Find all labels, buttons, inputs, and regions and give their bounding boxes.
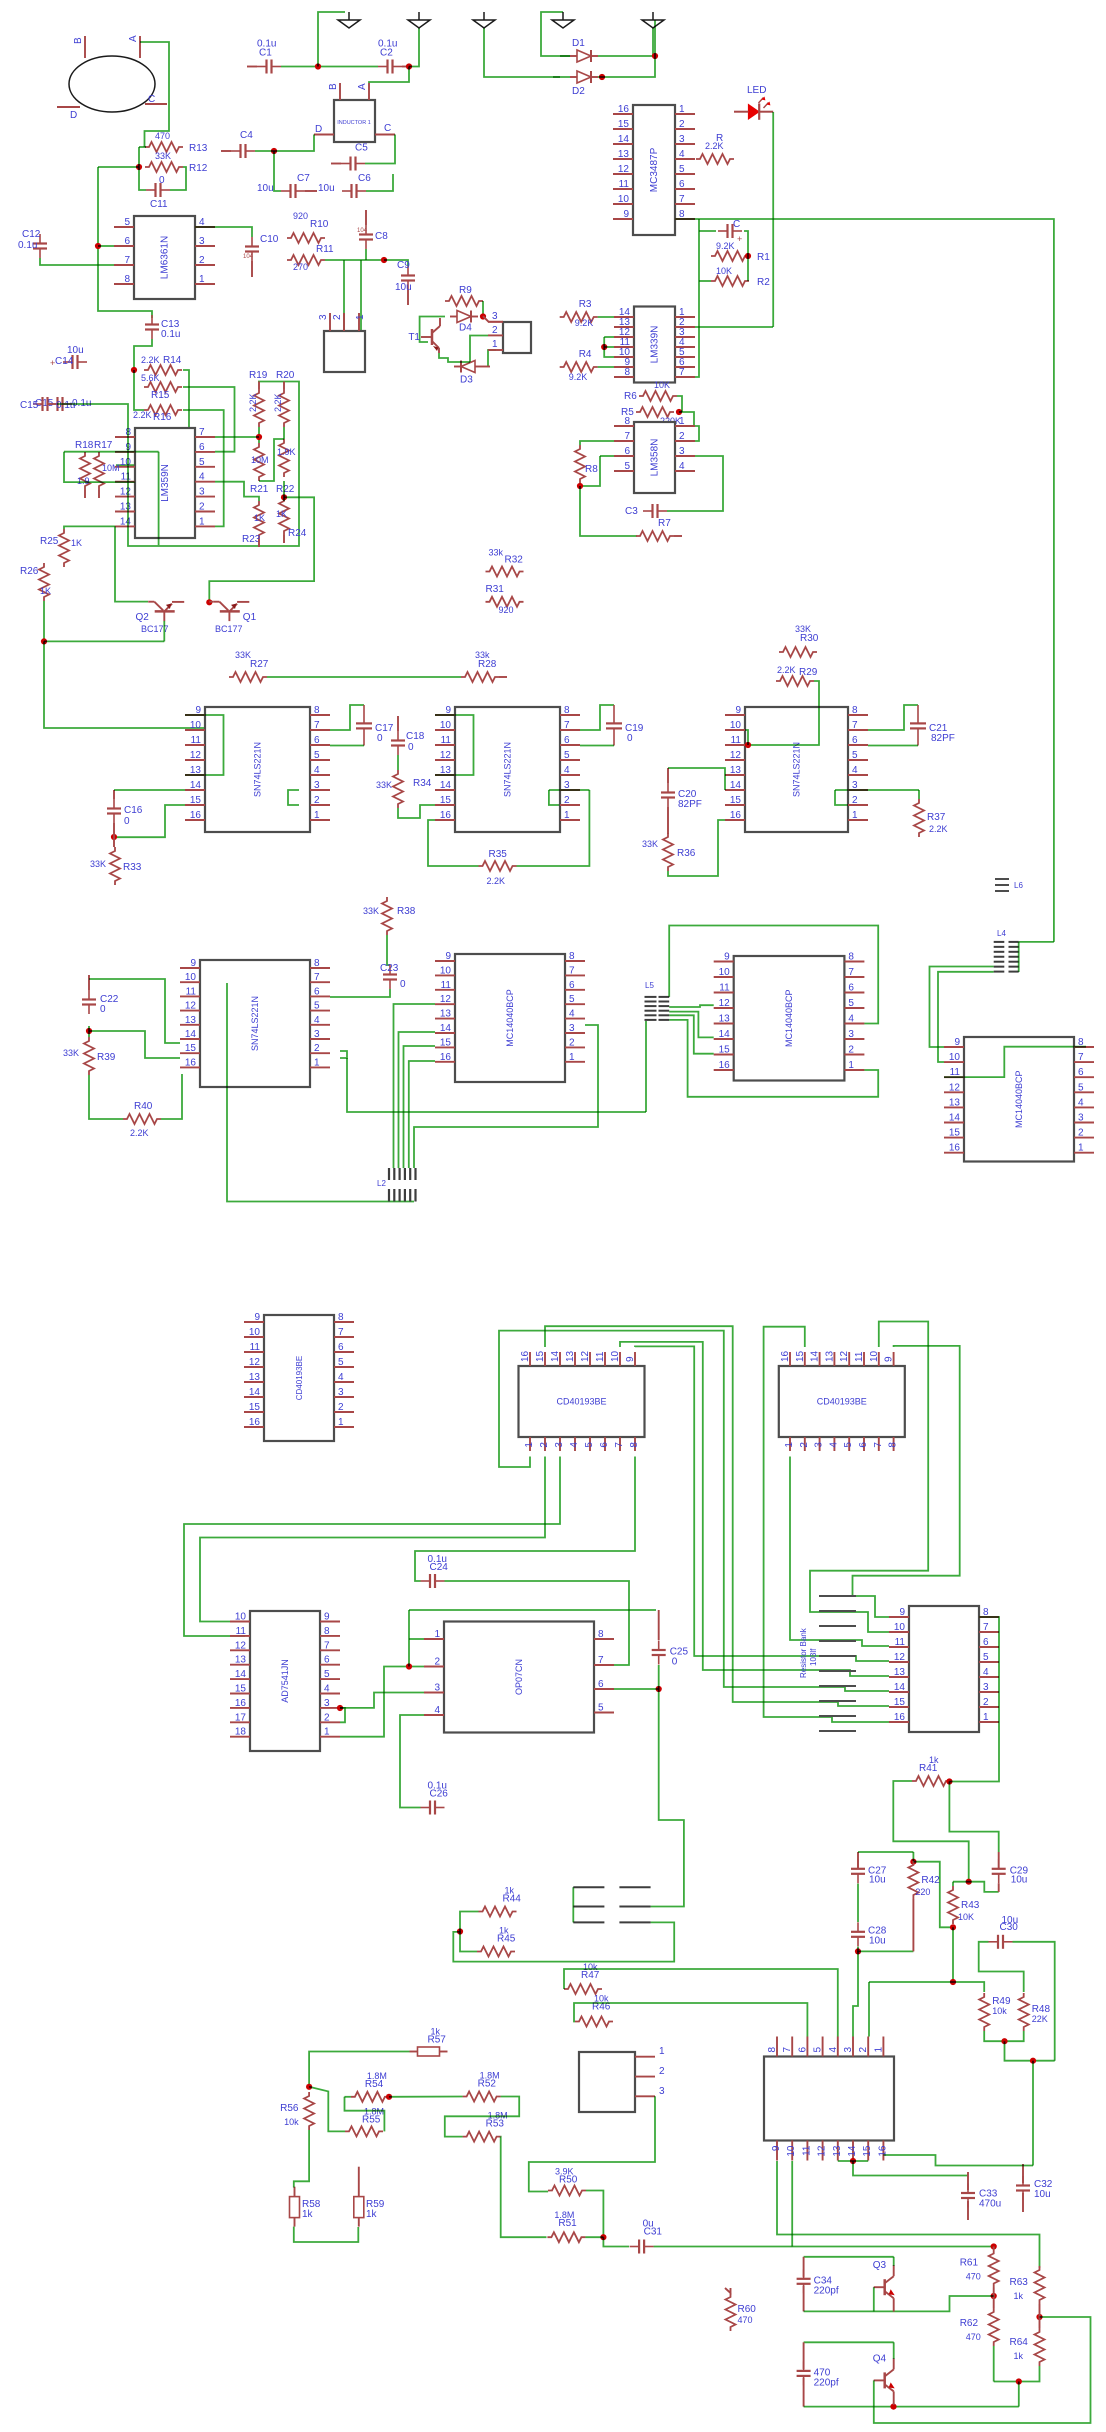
svg-text:R56: R56: [280, 2103, 299, 2114]
svg-text:7: 7: [569, 965, 575, 976]
svg-text:8: 8: [598, 1629, 604, 1640]
svg-text:15: 15: [730, 795, 742, 806]
svg-text:SN74LS221N: SN74LS221N: [253, 742, 263, 797]
svg-text:3: 3: [314, 1029, 320, 1040]
capacitor C29: [992, 1859, 1029, 1885]
transistor Q1 BC177: [213, 602, 249, 621]
resistor R11: [287, 244, 334, 272]
svg-text:5: 5: [843, 1442, 854, 1448]
svg-text:R60: R60: [738, 2304, 757, 2315]
svg-text:10u: 10u: [1034, 2189, 1051, 2200]
svg-text:6: 6: [338, 1342, 344, 1353]
svg-text:12: 12: [894, 1652, 906, 1663]
svg-text:5: 5: [314, 1001, 320, 1012]
svg-text:16: 16: [249, 1417, 261, 1428]
svg-text:2: 2: [338, 1402, 344, 1413]
wire R54-R52: [389, 2096, 463, 2098]
inductor block body: [334, 100, 375, 142]
wire LM6361N pin4 to C10: [195, 227, 252, 237]
svg-text:15: 15: [440, 1037, 452, 1048]
wire pin6 loop to R8 bottom: [580, 456, 600, 486]
svg-text:104: 104: [243, 254, 254, 260]
svg-text:MC14040BCP: MC14040BCP: [505, 989, 515, 1047]
svg-text:LM358N: LM358N: [650, 439, 661, 477]
svg-text:L4: L4: [997, 929, 1006, 938]
svg-text:2: 2: [679, 119, 685, 130]
wire R3 to pin14: [598, 316, 614, 318]
svg-text:13: 13: [719, 1014, 731, 1025]
svg-text:0u: 0u: [643, 2219, 654, 2230]
J3 pin3: [659, 2086, 665, 2097]
svg-text:7: 7: [873, 1442, 884, 1448]
R18 value: [77, 476, 90, 486]
diode D2: [570, 71, 598, 97]
svg-text:2: 2: [848, 1045, 854, 1056]
svg-text:14: 14: [440, 1023, 452, 1034]
svg-text:10k: 10k: [284, 2117, 299, 2127]
wire AD7541 pin1 to OP07 pin2: [340, 1667, 424, 1737]
svg-text:1: 1: [564, 810, 570, 821]
R23 bottom lead: [258, 539, 260, 547]
motor pin D stub: [57, 106, 80, 108]
wire Q2 collector down: [163, 621, 165, 641]
T1 label: [408, 332, 420, 343]
svg-text:1k: 1k: [499, 1926, 509, 1936]
svg-text:5: 5: [852, 750, 858, 761]
svg-text:11: 11: [186, 986, 197, 997]
svg-text:11: 11: [854, 1351, 865, 1362]
svg-text:7: 7: [624, 431, 630, 442]
resistor R41: [912, 1755, 950, 1786]
R17 R18 bottom leads: [85, 490, 99, 498]
wire U14 pin9 to U17 pin12: [635, 1346, 889, 1661]
wire R4 to pin9: [598, 366, 614, 368]
svg-text:12: 12: [580, 1350, 591, 1362]
svg-text:11: 11: [441, 980, 452, 991]
wire AD7541 pin3 to OP07 pin3: [340, 1693, 424, 1708]
svg-text:15: 15: [190, 795, 202, 806]
inductor pin D: [315, 124, 322, 135]
svg-text:1: 1: [983, 1712, 989, 1723]
C33 bottom lead: [967, 2201, 969, 2220]
junction D4/R9: [480, 313, 486, 319]
wire C13 to R14 junction: [134, 339, 152, 370]
capacitor C32: [1016, 2176, 1053, 2200]
svg-text:13: 13: [565, 1350, 576, 1362]
wire R26 down: [43, 601, 45, 641]
Q1 part: [215, 624, 243, 634]
capacitor C2: [378, 39, 402, 74]
svg-text:0: 0: [408, 742, 414, 753]
svg-text:16: 16: [235, 1698, 247, 1709]
svg-text:5: 5: [564, 750, 570, 761]
svg-text:0: 0: [627, 733, 633, 744]
svg-text:8: 8: [767, 2047, 778, 2053]
svg-text:D3: D3: [460, 375, 473, 386]
wire C22-R39 link: [88, 1026, 90, 1037]
svg-text:6: 6: [858, 1442, 869, 1448]
junction bottom rail: [1016, 2378, 1022, 2384]
wire U10 pin16 to L2: [409, 1061, 435, 1168]
svg-text:1: 1: [434, 1629, 440, 1640]
svg-text:R2: R2: [757, 277, 770, 288]
one-shot U7 SN74LS221N: [435, 705, 580, 832]
wire R47 to big IC pin4: [564, 1969, 838, 2037]
wire right loop: [744, 231, 748, 281]
op-amp U1 LM6361N: [114, 216, 215, 299]
svg-text:1.8M: 1.8M: [480, 2071, 500, 2081]
svg-text:14: 14: [618, 134, 630, 145]
J3 pin1: [659, 2046, 665, 2057]
R21 label: [250, 484, 269, 495]
wire R9 to D4 cathode: [482, 301, 484, 316]
wire D1 row to gnd4 col: [541, 12, 570, 56]
svg-text:8: 8: [624, 367, 630, 378]
R20 value: [273, 393, 283, 412]
svg-text:2: 2: [858, 2047, 869, 2053]
svg-text:11: 11: [191, 735, 202, 746]
resistor R26: [20, 563, 51, 601]
svg-text:1: 1: [524, 1442, 535, 1448]
wire R52 right wrap to R53 left: [445, 2097, 519, 2137]
svg-text:13: 13: [824, 1350, 835, 1362]
one-shot U8 SN74LS221N: [725, 705, 868, 832]
C29 bottom lead: [998, 1883, 1000, 1892]
svg-text:C: C: [384, 123, 391, 134]
svg-text:6: 6: [569, 980, 575, 991]
svg-text:11: 11: [801, 2145, 812, 2156]
svg-text:33K: 33K: [90, 859, 106, 869]
motor pin C label: [148, 94, 155, 105]
resistor R7: [636, 518, 674, 541]
one-shot U9 SN74LS221N: [180, 958, 330, 1087]
motor pin B label: [73, 37, 84, 44]
svg-text:8: 8: [852, 705, 858, 716]
svg-text:7: 7: [598, 1655, 604, 1666]
comparator U4 LM339N: [614, 307, 695, 383]
svg-text:12: 12: [440, 750, 452, 761]
connector J2 pin3 stub: [488, 321, 503, 323]
resistor bank value: [809, 1648, 818, 1666]
wire Q4 bottom rail: [804, 2406, 1019, 2408]
svg-text:R9: R9: [459, 285, 472, 296]
svg-text:10: 10: [440, 720, 452, 731]
DAC U16 AD7541JN: [230, 1611, 340, 1751]
junction pin7 net: [256, 434, 262, 440]
wire R20-R22 link: [283, 427, 285, 439]
wire gnd5 to D1 junction: [652, 28, 654, 56]
svg-text:7: 7: [848, 967, 854, 978]
counter U11 MC14040BCP: [714, 952, 865, 1081]
counter U13 CD40193BE: [244, 1312, 354, 1441]
connector J2 pin3: [492, 311, 498, 322]
svg-text:13: 13: [185, 1015, 197, 1026]
svg-text:6: 6: [679, 179, 685, 190]
svg-text:1.8M: 1.8M: [367, 2071, 387, 2081]
resistor R 2.2K: [696, 133, 734, 164]
svg-text:+: +: [50, 358, 55, 368]
svg-text:1.9K: 1.9K: [277, 447, 296, 457]
svg-text:15: 15: [249, 1402, 261, 1413]
resistor R19: [249, 370, 268, 427]
svg-text:1: 1: [314, 810, 320, 821]
resistor R50: [548, 2167, 586, 2196]
C9 bottom stub: [407, 290, 409, 305]
wire U9 pin2 jog: [340, 1051, 347, 1058]
wire pin9 net down to C15 net: [158, 452, 160, 545]
wire U14 pin1 loop to U17 pin14: [499, 1331, 889, 1691]
capacitor C27: [851, 1859, 887, 1885]
capacitor C14 10u: [55, 345, 87, 369]
svg-text:2.2K: 2.2K: [487, 876, 506, 886]
wire U19 pin16 net: [883, 2155, 1033, 2166]
wire OP07 pin6: [614, 1688, 659, 1690]
resistor R57: [410, 2027, 448, 2057]
svg-text:3: 3: [843, 2047, 854, 2053]
R19 value: [248, 393, 258, 412]
wire pin7 to C21: [868, 705, 918, 730]
connector J1 pin1: [355, 314, 366, 320]
C16 top stub: [113, 790, 115, 799]
svg-text:10: 10: [440, 965, 452, 976]
wire pin6: [600, 455, 614, 457]
resistor R63: [1010, 2266, 1045, 2304]
svg-text:R21: R21: [250, 484, 269, 495]
resistor R33: [90, 847, 142, 885]
wire R44-R45 left link: [460, 1912, 479, 1952]
svg-text:D: D: [315, 124, 322, 135]
svg-text:4: 4: [848, 1014, 854, 1025]
svg-text:C11: C11: [150, 199, 168, 210]
svg-text:C15: C15: [20, 400, 39, 411]
svg-text:16: 16: [730, 810, 742, 821]
resistor R5: [621, 407, 681, 426]
C8 top stub: [365, 210, 367, 225]
resistor R15: [141, 373, 182, 401]
svg-text:2.2K: 2.2K: [130, 1128, 149, 1138]
svg-text:MC3487P: MC3487P: [649, 147, 660, 192]
svg-text:5: 5: [324, 1669, 330, 1680]
capacitor C18: [391, 731, 425, 755]
svg-text:9: 9: [771, 2145, 782, 2151]
inductor pin A stub: [368, 83, 370, 100]
Q1 base link: [209, 601, 213, 603]
svg-text:7: 7: [782, 2047, 793, 2053]
svg-text:1: 1: [848, 1060, 854, 1071]
capacitor C9: [395, 260, 415, 293]
svg-text:10u: 10u: [257, 183, 274, 194]
svg-text:4: 4: [569, 1009, 575, 1020]
svg-text:3: 3: [318, 314, 329, 320]
svg-text:8: 8: [564, 705, 570, 716]
svg-text:Q2: Q2: [135, 612, 149, 623]
svg-text:10K: 10K: [654, 380, 670, 390]
capacitor C30: [989, 1915, 1019, 1949]
svg-text:7: 7: [852, 720, 858, 731]
motor pin D label: [70, 110, 77, 121]
wire OP07 pin4 to C26: [400, 1715, 424, 1808]
svg-text:D4: D4: [459, 323, 472, 334]
svg-text:9: 9: [954, 1037, 960, 1048]
svg-text:1: 1: [338, 1417, 344, 1428]
wire gnd2 to C2 junction: [409, 28, 419, 67]
wire L5 to U11 pin14: [669, 1012, 714, 1038]
wire R43 top lead link: [952, 1882, 954, 1886]
svg-text:R62: R62: [960, 2318, 979, 2329]
svg-text:1k: 1k: [505, 1886, 515, 1896]
wire R63 junction wrap bottom: [874, 2317, 1091, 2423]
svg-text:3: 3: [434, 1683, 440, 1694]
capacitor C12: [18, 229, 47, 258]
Q2 label: [135, 612, 149, 623]
wire D4 anode to T1 base: [420, 317, 445, 343]
svg-text:2: 2: [539, 1442, 550, 1448]
inductor pin B: [328, 83, 339, 90]
wire U14 pin2 to AD7541 pin10: [200, 1457, 545, 1622]
junction C2 net: [406, 63, 412, 69]
svg-text:3: 3: [569, 1023, 575, 1034]
svg-text:10u: 10u: [1002, 1915, 1019, 1926]
capacitor C23: [380, 963, 406, 990]
svg-text:4: 4: [324, 1684, 330, 1695]
wire R42 top to R43 bottom: [913, 1862, 953, 1928]
connector J1 pin3: [318, 314, 329, 320]
resistor R6: [624, 380, 677, 402]
wire pin11: [604, 346, 614, 348]
wire L5 row6 to U11 pin1 loop: [669, 1020, 878, 1097]
resistor R48: [1019, 1993, 1051, 2031]
svg-text:R19: R19: [249, 370, 268, 381]
R24 bottom lead: [283, 535, 285, 543]
C32 bottom lead: [1022, 2193, 1024, 2212]
resistor R3: [560, 299, 598, 328]
capacitor C4: [231, 130, 255, 158]
counter U14 CD40193BE: [519, 1350, 645, 1451]
svg-text:0.1u: 0.1u: [18, 240, 37, 251]
svg-text:3: 3: [492, 311, 498, 322]
svg-text:9.2K: 9.2K: [575, 318, 594, 328]
svg-text:16: 16: [185, 1057, 197, 1068]
wire R34 to U7 pin15: [398, 805, 435, 818]
svg-text:10u: 10u: [318, 183, 335, 194]
diode D1: [570, 38, 598, 62]
wire C30 right down: [1013, 1942, 1055, 2061]
wire pin7 to C19: [580, 705, 614, 730]
svg-text:1.9: 1.9: [77, 476, 90, 486]
IC U19: [764, 2037, 894, 2161]
svg-text:8: 8: [888, 1442, 899, 1448]
svg-text:10u: 10u: [1011, 1874, 1028, 1885]
wire U19 pins13-15 bottom: [838, 2160, 868, 2162]
svg-text:470: 470: [738, 2315, 753, 2325]
junction OP07 pin2 net: [406, 1663, 412, 1669]
R42 bottom lead: [912, 1899, 914, 1951]
svg-text:2: 2: [199, 502, 205, 513]
C14 plus: [50, 358, 55, 368]
svg-text:L6: L6: [1014, 881, 1023, 890]
svg-text:33K: 33K: [155, 151, 171, 161]
svg-text:14: 14: [719, 1029, 731, 1040]
resistor R20: [276, 370, 295, 427]
svg-text:R33: R33: [123, 862, 142, 873]
wire emitter to pin2 path: [452, 361, 470, 363]
svg-text:7: 7: [314, 720, 320, 731]
svg-text:3: 3: [679, 446, 685, 457]
svg-text:R34: R34: [413, 778, 432, 789]
C34 bottom lead: [803, 2286, 805, 2312]
svg-text:15: 15: [949, 1128, 961, 1139]
svg-text:2.2K: 2.2K: [133, 410, 152, 420]
svg-text:10: 10: [235, 1612, 247, 1623]
C35 value 470: [814, 2367, 831, 2378]
resistor R64: [1010, 2328, 1045, 2366]
wire R57 to R56 top: [309, 2052, 409, 2087]
wire C31 right long: [654, 2246, 994, 2248]
resistor R54: [351, 2071, 389, 2102]
connector J2 pin2: [492, 325, 498, 336]
capacitor C33: [961, 2184, 1001, 2210]
svg-text:220pf: 220pf: [814, 2377, 839, 2388]
connector J1 pin3 stub: [329, 313, 331, 331]
ground G1: [338, 12, 360, 28]
svg-text:0.1u: 0.1u: [161, 329, 180, 340]
connector J2 body: [503, 322, 531, 353]
wire R12 left to C11: [139, 167, 146, 190]
svg-text:470: 470: [966, 2272, 981, 2282]
counter U12 MC14040BCP: [944, 1037, 1094, 1162]
wire pin1-pin2 loop: [695, 426, 699, 441]
svg-text:11: 11: [619, 179, 630, 190]
C7 right stub: [305, 190, 317, 192]
svg-text:14: 14: [949, 1113, 961, 1124]
wire U8 pin3 to R37: [835, 789, 919, 791]
svg-text:14: 14: [185, 1029, 197, 1040]
resistor R46: [575, 1994, 613, 2027]
wire X1 left strap: [572, 1887, 574, 1922]
svg-text:18: 18: [235, 1727, 247, 1738]
R64 top lead: [1039, 2317, 1041, 2328]
svg-text:C14: C14: [55, 356, 74, 367]
svg-text:10: 10: [249, 1327, 261, 1338]
wire Q3 collector link: [893, 2257, 895, 2266]
svg-text:5: 5: [199, 457, 205, 468]
junction R44/R45: [457, 1928, 463, 1934]
wire pin11 link: [64, 452, 135, 482]
inductor pin B stub: [339, 83, 341, 100]
svg-text:R17: R17: [94, 440, 113, 451]
svg-text:Q1: Q1: [243, 612, 257, 623]
wire U14 pin15 to U17 pin15: [545, 1326, 889, 1706]
svg-text:R31: R31: [486, 584, 505, 595]
R62 top lead: [993, 2296, 995, 2308]
svg-text:13: 13: [235, 1655, 247, 1666]
junction R49/R48 bottom: [1001, 2038, 1007, 2044]
junction C22 bottom: [86, 1028, 92, 1034]
wire U7 pin16 down to R35: [428, 820, 479, 866]
capacitor C pol: [718, 219, 742, 238]
svg-text:0: 0: [377, 733, 383, 744]
svg-text:4: 4: [314, 765, 320, 776]
wire R51 right to junction: [585, 2236, 603, 2238]
svg-text:2.2K: 2.2K: [705, 141, 724, 151]
svg-text:9: 9: [724, 952, 730, 963]
svg-text:11: 11: [719, 983, 730, 994]
connector L5: [645, 997, 670, 1020]
svg-text:4: 4: [828, 2047, 839, 2053]
wire U8 pin2-3 jog: [835, 790, 848, 805]
svg-text:6: 6: [124, 236, 130, 247]
svg-text:16: 16: [949, 1143, 961, 1154]
